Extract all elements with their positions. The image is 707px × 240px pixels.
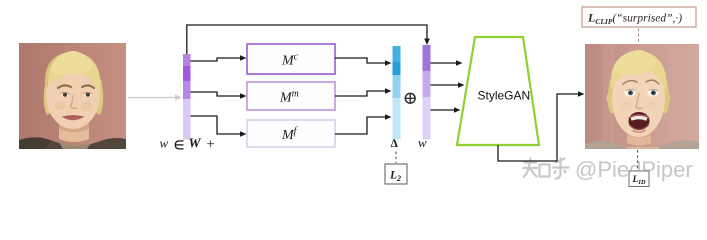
wire bar to Mf [191,116,247,137]
label w in W+ [160,136,215,153]
latent bar w in W+ [183,54,191,140]
wire w bar to StyleGAN middle [431,82,465,88]
mapper box Mc [247,44,335,74]
wire w bar to StyleGAN top [431,60,463,66]
CLIP loss box [582,7,696,27]
wire bar to Mm [191,92,247,99]
wire input image to latent bar [128,95,182,101]
svg-text:Δ: Δ [391,138,399,150]
watermark zhihu glyphs [524,159,569,179]
dashed link CLIP box to output image [638,29,640,44]
wire Mm to delta bar [335,88,392,96]
wire Mc to delta bar [335,58,392,66]
wire w bar to StyleGAN bottom [431,107,461,113]
ID loss box [629,171,649,187]
svg-text:w: w [160,136,169,151]
wire bar to Mc [191,55,247,61]
svg-text:w: w [418,135,427,150]
skip wire from bar top over boxes to w bar [187,25,430,54]
svg-text:StyleGAN: StyleGAN [478,89,531,103]
dashed link delta to L2 [395,152,397,164]
svg-text:W: W [189,136,202,151]
w bar [423,45,431,140]
StyleGAN trapezoid [457,37,539,145]
mapper box Mm [247,82,335,110]
mapper box Mf [247,120,335,147]
L2 loss box [385,164,407,184]
delta bar [393,46,401,140]
wire Mf to delta bar [335,114,392,134]
svg-text:+: + [207,137,215,153]
output face image [585,44,699,149]
dashed link output image to ID box [637,150,639,171]
input face image [19,43,126,149]
wire StyleGAN to output image [498,91,585,161]
plus operator [405,93,415,103]
